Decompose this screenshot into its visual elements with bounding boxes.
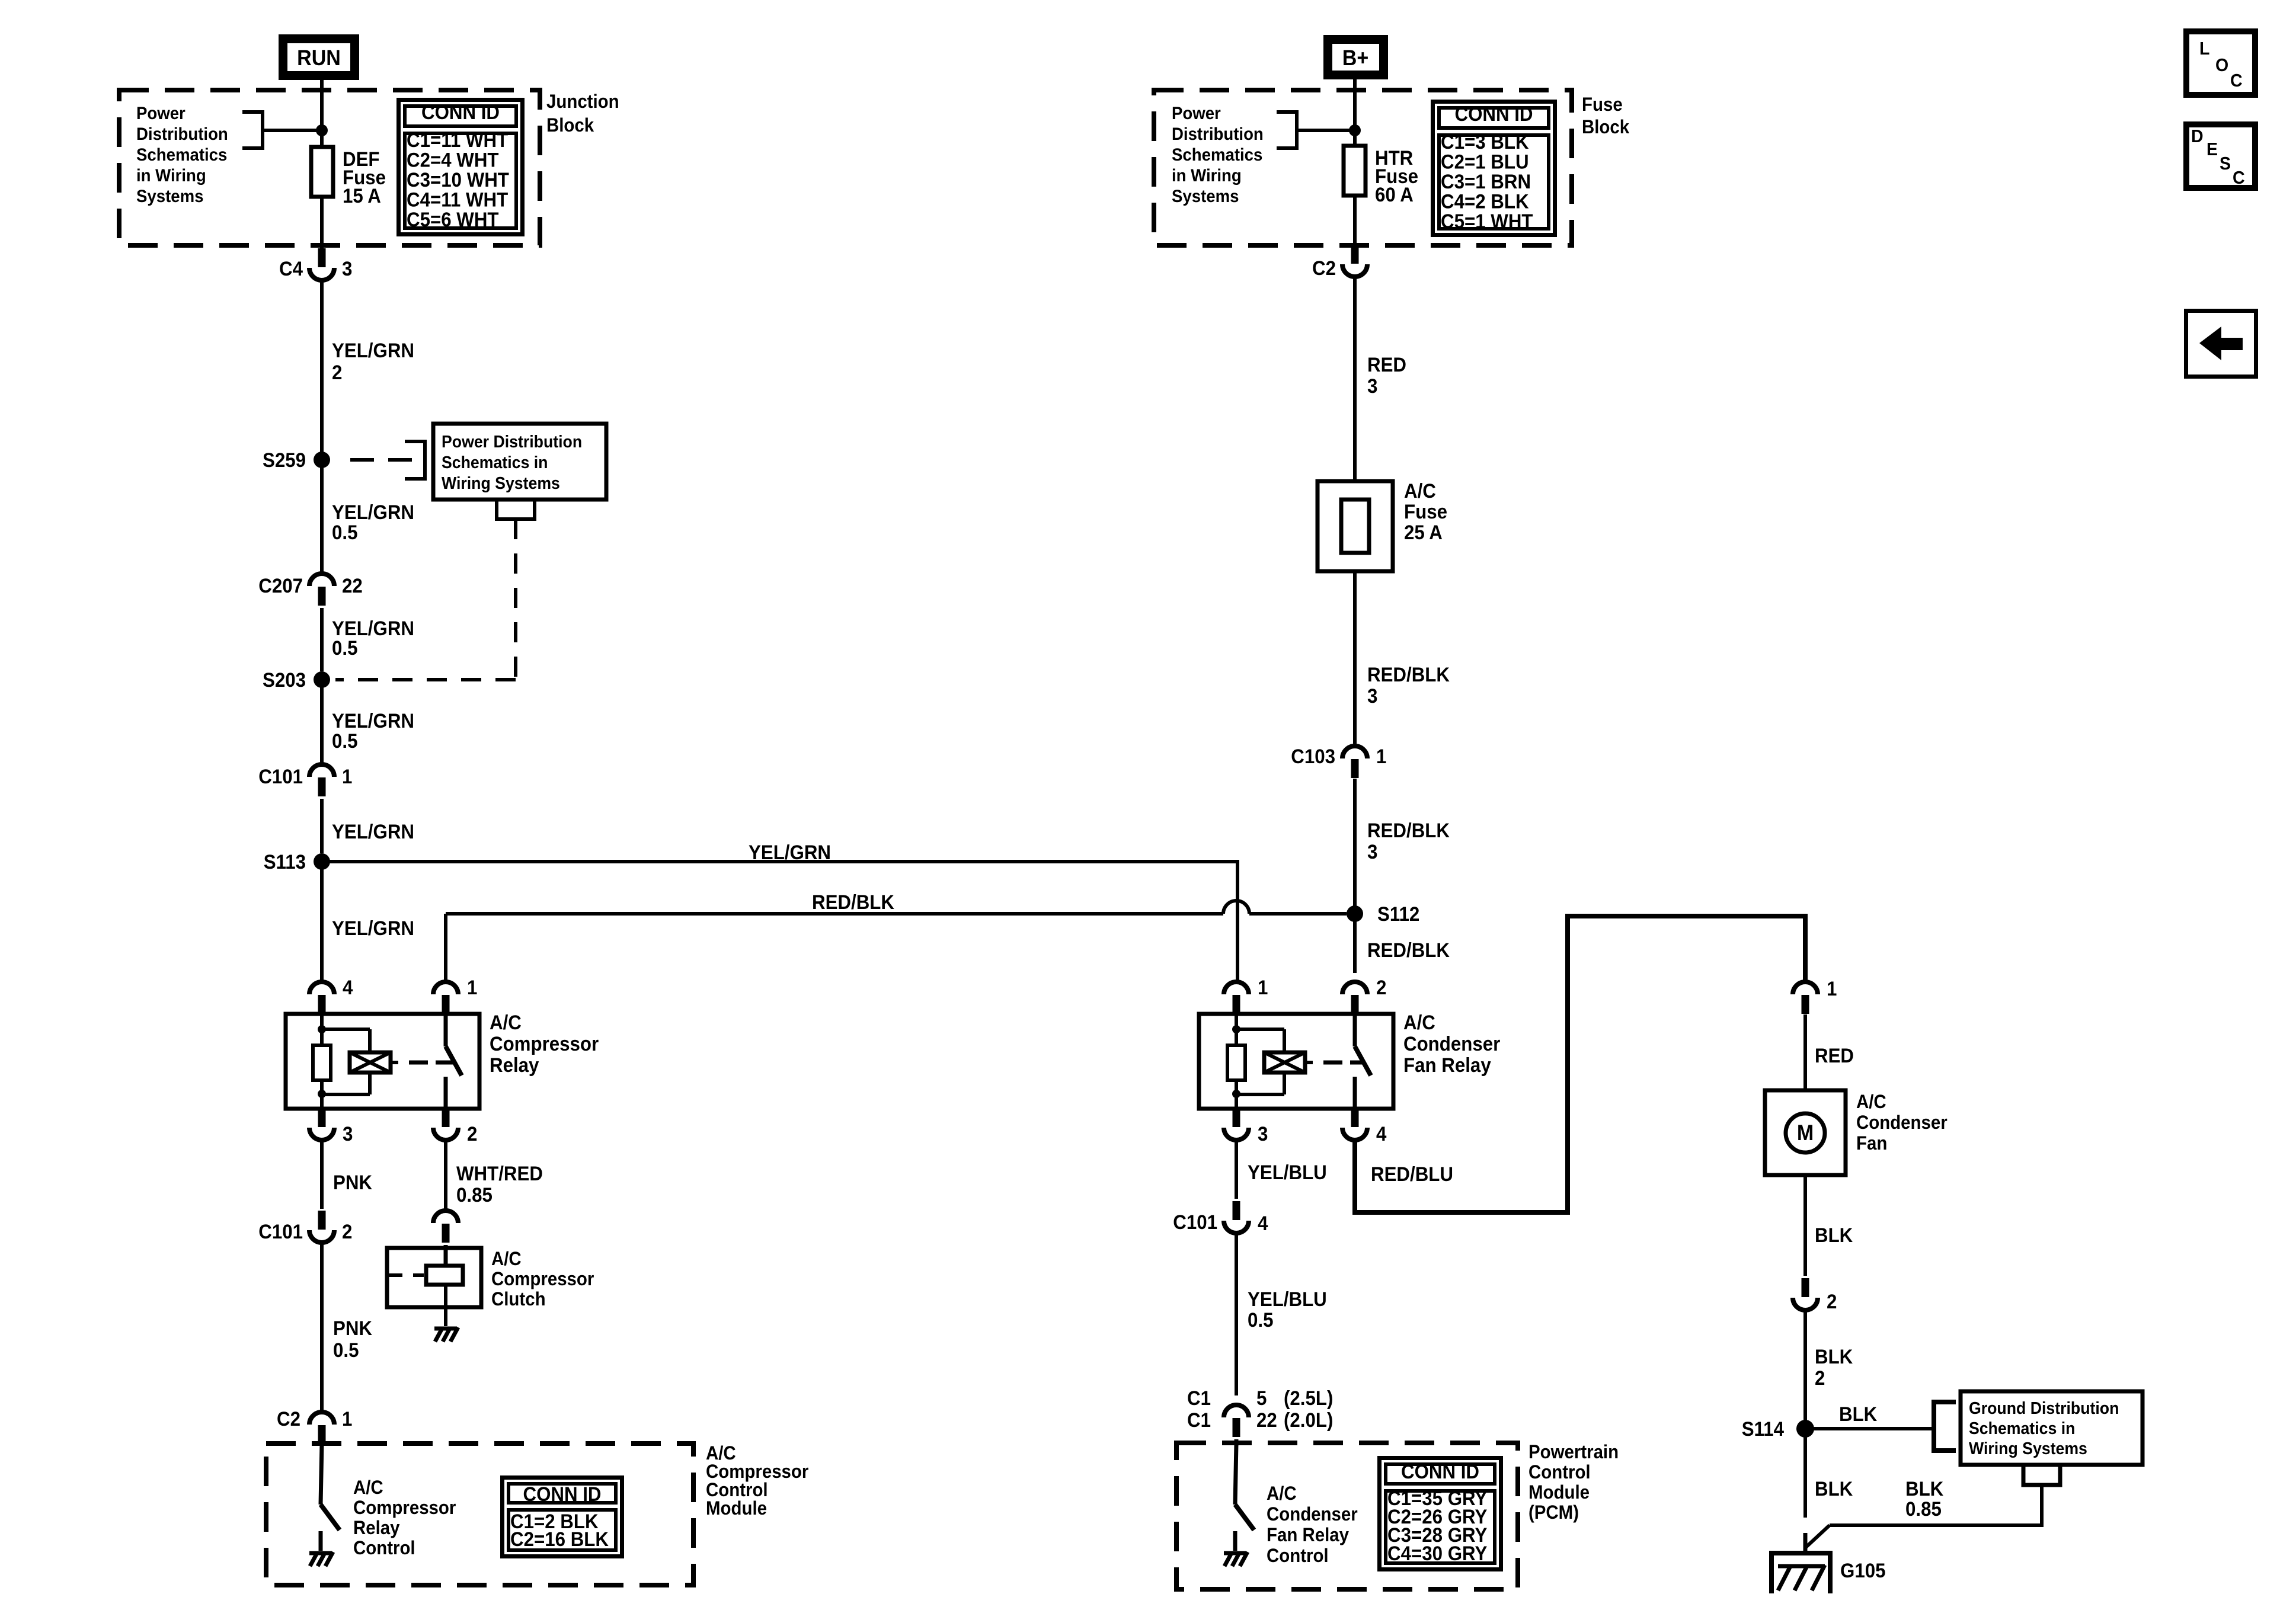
svg-text:3: 3	[1367, 840, 1377, 863]
label PNK	[333, 1171, 372, 1194]
svg-text:BLK: BLK	[1905, 1477, 1944, 1500]
svg-text:0.5: 0.5	[333, 1339, 359, 1362]
A/C condenser fan motor	[1765, 1090, 1846, 1175]
label YEL/GRN 0.5	[332, 617, 414, 660]
DESC reference box	[2186, 124, 2255, 188]
LOC reference box	[2186, 31, 2255, 95]
svg-text:4: 4	[343, 976, 353, 999]
svg-text:C4: C4	[279, 257, 303, 280]
A/C Compressor Control Module label	[706, 1442, 808, 1519]
svg-text:S112: S112	[1377, 902, 1419, 926]
relay coil-side internal wiring and junction dots	[318, 1014, 370, 1109]
svg-text:4: 4	[1376, 1122, 1386, 1145]
label YEL/BLU	[1248, 1161, 1327, 1184]
svg-text:Schematics: Schematics	[136, 145, 227, 165]
svg-text:BLK: BLK	[1839, 1403, 1878, 1426]
fan connector pin 2	[1793, 1278, 1837, 1313]
PCM dashed box	[1176, 1443, 1518, 1589]
svg-text:C5=6 WHT: C5=6 WHT	[407, 208, 499, 231]
svg-text:S113: S113	[264, 850, 306, 873]
svg-text:RED/BLU: RED/BLU	[1371, 1163, 1453, 1186]
HTR fuse 60A	[1344, 146, 1418, 206]
svg-text:22: 22	[342, 574, 363, 597]
label RED/BLK 3	[1367, 819, 1450, 863]
svg-text:A/C: A/C	[490, 1011, 522, 1034]
svg-text:Distribution: Distribution	[1172, 124, 1264, 144]
label YEL/GRN 0.5	[332, 501, 414, 544]
svg-text:CONN ID: CONN ID	[421, 101, 500, 124]
svg-text:C2: C2	[1312, 257, 1336, 280]
label YEL/BLU 0.5	[1248, 1288, 1327, 1331]
svg-text:Schematics in: Schematics in	[1969, 1419, 2075, 1438]
svg-text:0.5: 0.5	[332, 729, 357, 753]
B+ battery feed box	[1328, 40, 1384, 75]
svg-text:15 A: 15 A	[343, 184, 381, 207]
svg-text:2: 2	[1815, 1366, 1825, 1390]
connector C2 (fuse block)	[1312, 245, 1367, 279]
svg-text:L: L	[2199, 39, 2209, 59]
svg-text:2: 2	[1376, 976, 1386, 999]
svg-text:Fan: Fan	[1856, 1132, 1887, 1154]
relay coil-side top pin connector	[309, 982, 334, 1014]
label YEL/GRN (branch)	[749, 841, 831, 864]
relay coil (box with X)	[1264, 1052, 1313, 1073]
label YEL/GRN	[332, 917, 414, 940]
svg-text:Condenser: Condenser	[1856, 1112, 1948, 1133]
svg-text:YEL/GRN: YEL/GRN	[332, 820, 414, 843]
note box under-bracket and BLK 0.85 wire to G105	[1805, 1465, 2060, 1548]
wire relay pin3 to C101 (YEL/BLU)	[1235, 1142, 1238, 1199]
label RED/BLK (branch)	[812, 891, 894, 914]
svg-text:3: 3	[342, 257, 352, 280]
dashed tie S259 to power distribution note	[350, 441, 425, 479]
svg-text:Wiring Systems: Wiring Systems	[1969, 1439, 2087, 1458]
ground distribution note bracket	[1934, 1402, 1956, 1451]
relay coil suppression resistor	[1227, 1045, 1245, 1080]
svg-text:Powertrain: Powertrain	[1528, 1441, 1619, 1462]
fuse block dashed box	[1154, 90, 1572, 245]
svg-text:Wiring Systems: Wiring Systems	[442, 473, 560, 492]
svg-text:1: 1	[342, 1407, 352, 1430]
svg-text:A/C: A/C	[1267, 1483, 1297, 1504]
splice S114	[1742, 1417, 1814, 1441]
svg-text:in Wiring: in Wiring	[1172, 166, 1242, 185]
svg-text:0.85: 0.85	[456, 1183, 493, 1206]
svg-text:Compressor: Compressor	[490, 1032, 599, 1055]
connector C103 pin 1	[1291, 745, 1386, 778]
label A/C Compressor Relay Control	[353, 1477, 456, 1558]
connector C2 pin 1	[277, 1407, 352, 1444]
svg-text:Power Distribution: Power Distribution	[442, 432, 582, 451]
svg-text:Fuse: Fuse	[1404, 500, 1447, 523]
svg-text:Power: Power	[136, 104, 186, 123]
junction block note: power distribution schematics	[136, 104, 228, 206]
Fuse Block label	[1582, 94, 1630, 137]
svg-text:CONN ID: CONN ID	[1454, 103, 1533, 126]
svg-text:Control: Control	[1528, 1461, 1591, 1483]
ground inside PCM	[1224, 1552, 1248, 1566]
clutch ground	[434, 1327, 458, 1342]
svg-text:0.5: 0.5	[1248, 1308, 1273, 1331]
svg-text:1: 1	[1376, 745, 1386, 768]
svg-text:BLK: BLK	[1815, 1224, 1853, 1247]
wire C101 to PCM C1 (YEL/BLU 0.5)	[1235, 1235, 1238, 1395]
svg-text:RED/BLK: RED/BLK	[1367, 939, 1450, 962]
svg-text:25 A: 25 A	[1404, 521, 1443, 544]
wire C2 to A/C fuse (RED 3)	[1353, 279, 1357, 483]
label YEL/GRN 0.5	[332, 709, 414, 753]
wire relay pin2 to clutch connector (WHT/RED 0.85)	[444, 1142, 447, 1209]
svg-text:C103: C103	[1291, 745, 1335, 768]
label RED 3	[1367, 353, 1406, 398]
wire C101 to S113 (YEL/GRN)	[320, 799, 324, 853]
label A/C Compressor Clutch	[491, 1248, 594, 1310]
svg-text:C4=30 GRY: C4=30 GRY	[1387, 1542, 1488, 1565]
svg-text:(PCM): (PCM)	[1528, 1502, 1579, 1523]
svg-text:5: 5	[1256, 1387, 1267, 1410]
relay box	[286, 1014, 479, 1109]
svg-text:Systems: Systems	[1172, 187, 1239, 206]
svg-text:WHT/RED: WHT/RED	[456, 1162, 543, 1185]
svg-text:YEL/GRN: YEL/GRN	[749, 841, 831, 864]
connector C207 pin 22	[258, 574, 363, 606]
svg-text:YEL/BLU: YEL/BLU	[1248, 1288, 1327, 1311]
svg-text:0.85: 0.85	[1905, 1497, 1942, 1521]
svg-text:3: 3	[343, 1122, 353, 1145]
svg-text:A/C: A/C	[1856, 1091, 1886, 1112]
label BLK	[1839, 1403, 1878, 1426]
svg-text:D: D	[2191, 126, 2204, 146]
label BLK 0.85	[1905, 1477, 1944, 1521]
label RED/BLU	[1371, 1163, 1453, 1186]
svg-text:YEL/GRN: YEL/GRN	[332, 709, 414, 732]
A/C compressor control module dashed box	[266, 1443, 693, 1585]
compressor relay control switch	[321, 1443, 340, 1551]
svg-text:Block: Block	[1582, 116, 1630, 137]
svg-text:Relay: Relay	[490, 1054, 539, 1077]
svg-text:A/C: A/C	[1403, 1011, 1435, 1034]
wire S203 to C101 (YEL/GRN 0.5)	[320, 680, 324, 763]
wire S114 to G105 (BLK)	[1803, 1429, 1807, 1553]
svg-text:Relay: Relay	[353, 1517, 400, 1538]
power distribution schematics note box	[433, 424, 606, 500]
label RED	[1815, 1044, 1854, 1067]
svg-text:Block: Block	[546, 114, 594, 136]
svg-text:YEL/GRN: YEL/GRN	[332, 501, 414, 524]
svg-text:3: 3	[1367, 375, 1377, 398]
svg-text:RED: RED	[1815, 1044, 1854, 1067]
svg-text:60 A: 60 A	[1375, 183, 1414, 206]
svg-text:Power: Power	[1172, 104, 1221, 123]
connector C101 pin 2	[258, 1211, 352, 1243]
wire relay pin3 to C101 (PNK)	[320, 1142, 324, 1209]
svg-text:Clutch: Clutch	[491, 1288, 546, 1310]
label RED/BLK 3	[1367, 663, 1450, 708]
splice S113	[264, 850, 330, 873]
svg-text:B+: B+	[1342, 46, 1368, 71]
relay switch-side top pin connector	[433, 982, 458, 1014]
wire S113 to compressor relay pin 4 (YEL/GRN)	[320, 862, 324, 980]
ground inside compressor control module	[309, 1552, 333, 1566]
relay coil suppression resistor	[313, 1045, 331, 1080]
svg-text:4: 4	[1258, 1212, 1268, 1235]
svg-text:RED/BLK: RED/BLK	[1367, 663, 1450, 686]
svg-text:0.5: 0.5	[332, 521, 357, 544]
label A/C Condenser Fan	[1856, 1091, 1948, 1154]
svg-text:RED/BLK: RED/BLK	[812, 891, 894, 914]
ground G105	[1769, 1553, 1885, 1593]
relay operating link (dashed)	[1323, 1061, 1365, 1065]
label WHT/RED 0.85	[456, 1162, 543, 1206]
relay box	[1199, 1014, 1393, 1109]
compressor relay pin labels 4 1 3 2	[343, 976, 477, 1145]
note box under-bracket and dashed tie to S203	[335, 500, 535, 680]
connector C101 pin 1	[258, 764, 352, 796]
wire fan to connector pin 2 (BLK)	[1803, 1175, 1807, 1276]
svg-text:C207: C207	[258, 574, 303, 597]
fuse block note: power distribution schematics	[1172, 104, 1264, 206]
svg-text:A/C: A/C	[491, 1248, 522, 1269]
svg-text:Ground Distribution: Ground Distribution	[1969, 1398, 2119, 1417]
fuse block CONN ID table	[1433, 102, 1555, 235]
connector C101 pin 4	[1173, 1201, 1268, 1234]
svg-text:0.5: 0.5	[332, 636, 357, 660]
svg-text:RUN: RUN	[297, 46, 341, 71]
svg-text:Schematics in: Schematics in	[442, 453, 548, 472]
svg-text:Condenser: Condenser	[1403, 1032, 1501, 1055]
relay switch contact	[1355, 1014, 1371, 1109]
condenser fan relay pin labels 1 2 3 4	[1258, 976, 1386, 1145]
svg-text:in Wiring: in Wiring	[136, 166, 206, 185]
A/C fuse 25A	[1318, 479, 1447, 571]
svg-text:A/C: A/C	[1404, 479, 1436, 502]
wire C101 to C2 (PNK 0.5)	[320, 1244, 324, 1411]
wire C4 to S259 (YEL/GRN 2)	[320, 282, 324, 452]
wire RUN to junction block fuse	[320, 80, 324, 147]
label BLK 2	[1815, 1345, 1853, 1390]
label PNK 0.5	[333, 1317, 372, 1362]
relay bottom pin connectors	[1224, 1108, 1367, 1140]
wire B+ to HTR fuse	[1353, 79, 1357, 146]
svg-text:BLK: BLK	[1815, 1477, 1853, 1500]
svg-text:Distribution: Distribution	[136, 124, 228, 144]
condenser fan relay control switch	[1235, 1443, 1254, 1551]
splice S112	[1347, 902, 1419, 926]
compressor control module CONN ID table	[503, 1478, 622, 1557]
svg-text:1: 1	[1827, 977, 1837, 1000]
wire S259 to C207 (YEL/GRN 0.5)	[320, 460, 324, 572]
RUN ignition feed box	[283, 39, 355, 76]
svg-text:CONN ID: CONN ID	[1401, 1460, 1479, 1483]
svg-text:S259: S259	[263, 449, 306, 472]
relay name label	[1403, 1011, 1501, 1077]
wire into PCM	[1235, 1439, 1239, 1446]
svg-text:S: S	[2220, 153, 2231, 174]
svg-text:2: 2	[342, 1220, 352, 1243]
svg-text:M: M	[1797, 1121, 1814, 1145]
fuse block note bracket	[1277, 112, 1361, 148]
svg-text:Condenser: Condenser	[1267, 1503, 1358, 1525]
PCM connector C1 pins 5 (2.5L) / 22 (2.0L)	[1187, 1387, 1333, 1437]
svg-text:Module: Module	[706, 1497, 767, 1519]
svg-text:YEL/BLU: YEL/BLU	[1248, 1161, 1327, 1184]
wire relay pin4 to condenser fan (RED/BLU)	[1355, 916, 1805, 1212]
svg-text:C5=1 WHT: C5=1 WHT	[1441, 210, 1533, 233]
junction block dashed box	[119, 90, 540, 245]
svg-text:1: 1	[1258, 976, 1268, 999]
Powertrain Control Module (PCM) label	[1528, 1441, 1619, 1523]
svg-text:Fan Relay: Fan Relay	[1267, 1524, 1349, 1545]
label YEL/GRN	[332, 820, 414, 843]
DEF fuse 15A	[311, 147, 386, 207]
wire C207 to S203 (YEL/GRN 0.5)	[320, 608, 324, 671]
relay operating link (dashed)	[409, 1061, 456, 1065]
svg-text:CONN ID: CONN ID	[523, 1483, 601, 1506]
Junction Block label	[546, 91, 619, 136]
relay switch-side top pin connector	[1342, 982, 1367, 1014]
svg-text:G105: G105	[1840, 1559, 1885, 1582]
svg-text:S203: S203	[263, 668, 306, 692]
svg-text:3: 3	[1258, 1122, 1268, 1145]
relay name label	[490, 1011, 599, 1077]
relay bottom pin connectors	[309, 1108, 458, 1140]
svg-text:O: O	[2215, 55, 2228, 75]
relay switch contact	[446, 1014, 462, 1109]
wire S112 to condenser fan relay pin 2 (RED/BLK)	[1353, 914, 1357, 973]
splice S259	[263, 449, 330, 472]
label YEL/GRN 2	[332, 339, 414, 384]
svg-text:(2.0L): (2.0L)	[1284, 1409, 1333, 1432]
relay coil-side top pin connector	[1224, 982, 1249, 1014]
svg-text:Control: Control	[353, 1537, 415, 1558]
svg-text:Module: Module	[1528, 1481, 1590, 1503]
svg-text:1: 1	[342, 765, 352, 788]
svg-text:22: 22	[1256, 1409, 1277, 1432]
svg-text:2: 2	[1827, 1290, 1837, 1313]
svg-text:Compressor: Compressor	[491, 1268, 594, 1289]
junction block note bracket	[242, 112, 328, 148]
svg-text:Compressor: Compressor	[353, 1497, 456, 1518]
svg-text:C1: C1	[1187, 1409, 1211, 1432]
svg-text:Fan Relay: Fan Relay	[1403, 1054, 1491, 1077]
svg-text:C: C	[2233, 168, 2245, 188]
svg-text:RED: RED	[1367, 353, 1406, 376]
svg-text:C2: C2	[277, 1407, 300, 1430]
svg-text:1: 1	[467, 976, 477, 999]
wire S112 to compressor relay pin 1 (RED/BLK) with hop over YEL/GRN	[446, 901, 1347, 980]
PCM CONN ID table	[1380, 1458, 1501, 1570]
wire S114 to ground distribution note (BLK)	[1805, 1427, 1934, 1430]
ground distribution schematics note box	[1961, 1391, 2142, 1465]
svg-text:BLK: BLK	[1815, 1345, 1853, 1368]
relay coil (box with X)	[350, 1052, 398, 1073]
wire S113 to condenser fan relay pin 1 (YEL/GRN branch)	[322, 862, 1237, 980]
clutch connector	[433, 1211, 458, 1243]
svg-text:C101: C101	[1173, 1211, 1217, 1234]
svg-text:Systems: Systems	[136, 187, 203, 206]
svg-text:Control: Control	[1267, 1545, 1329, 1566]
svg-text:A/C: A/C	[353, 1477, 383, 1498]
condenser fan connector pin 1	[1793, 977, 1837, 1014]
svg-text:PNK: PNK	[333, 1171, 372, 1194]
svg-text:2: 2	[467, 1122, 477, 1145]
svg-text:3: 3	[1367, 684, 1377, 708]
wire pin2 to S114 (BLK 2)	[1803, 1312, 1807, 1429]
svg-text:Fuse: Fuse	[1582, 94, 1623, 115]
A/C compressor clutch	[387, 1245, 481, 1326]
connector C4 pin 3	[279, 248, 352, 280]
svg-text:S114: S114	[1742, 1417, 1784, 1441]
wire DEF fuse to C4	[320, 197, 324, 254]
svg-text:YEL/GRN: YEL/GRN	[332, 917, 414, 940]
label A/C Condenser Fan Relay Control	[1267, 1483, 1358, 1566]
label BLK	[1815, 1224, 1853, 1247]
svg-text:2: 2	[332, 361, 342, 384]
svg-text:E: E	[2207, 139, 2218, 159]
svg-text:C: C	[2230, 71, 2243, 91]
back arrow box	[2186, 311, 2256, 377]
svg-text:PNK: PNK	[333, 1317, 372, 1340]
junction block CONN ID table	[399, 100, 523, 235]
svg-text:Schematics: Schematics	[1172, 145, 1262, 165]
svg-text:Junction: Junction	[546, 91, 619, 112]
svg-text:C2=16 BLK: C2=16 BLK	[510, 1528, 609, 1551]
relay coil-side internal wiring and junction dots	[1232, 1014, 1284, 1109]
wire A/C fuse to C103 (RED/BLK 3)	[1353, 571, 1357, 744]
wire HTR fuse to C2	[1353, 196, 1357, 244]
svg-text:RED/BLK: RED/BLK	[1367, 819, 1450, 842]
svg-text:C101: C101	[258, 765, 303, 788]
label RED/BLK	[1367, 939, 1450, 962]
svg-text:C101: C101	[258, 1220, 303, 1243]
wire C103 to S112 (RED/BLK 3)	[1353, 779, 1357, 914]
svg-text:(2.5L): (2.5L)	[1284, 1387, 1333, 1410]
svg-text:YEL/GRN: YEL/GRN	[332, 339, 414, 362]
svg-text:C1: C1	[1187, 1387, 1211, 1410]
label BLK	[1815, 1477, 1853, 1500]
wire pin1 to fan motor (RED)	[1803, 1014, 1807, 1090]
splice S203	[263, 668, 330, 692]
